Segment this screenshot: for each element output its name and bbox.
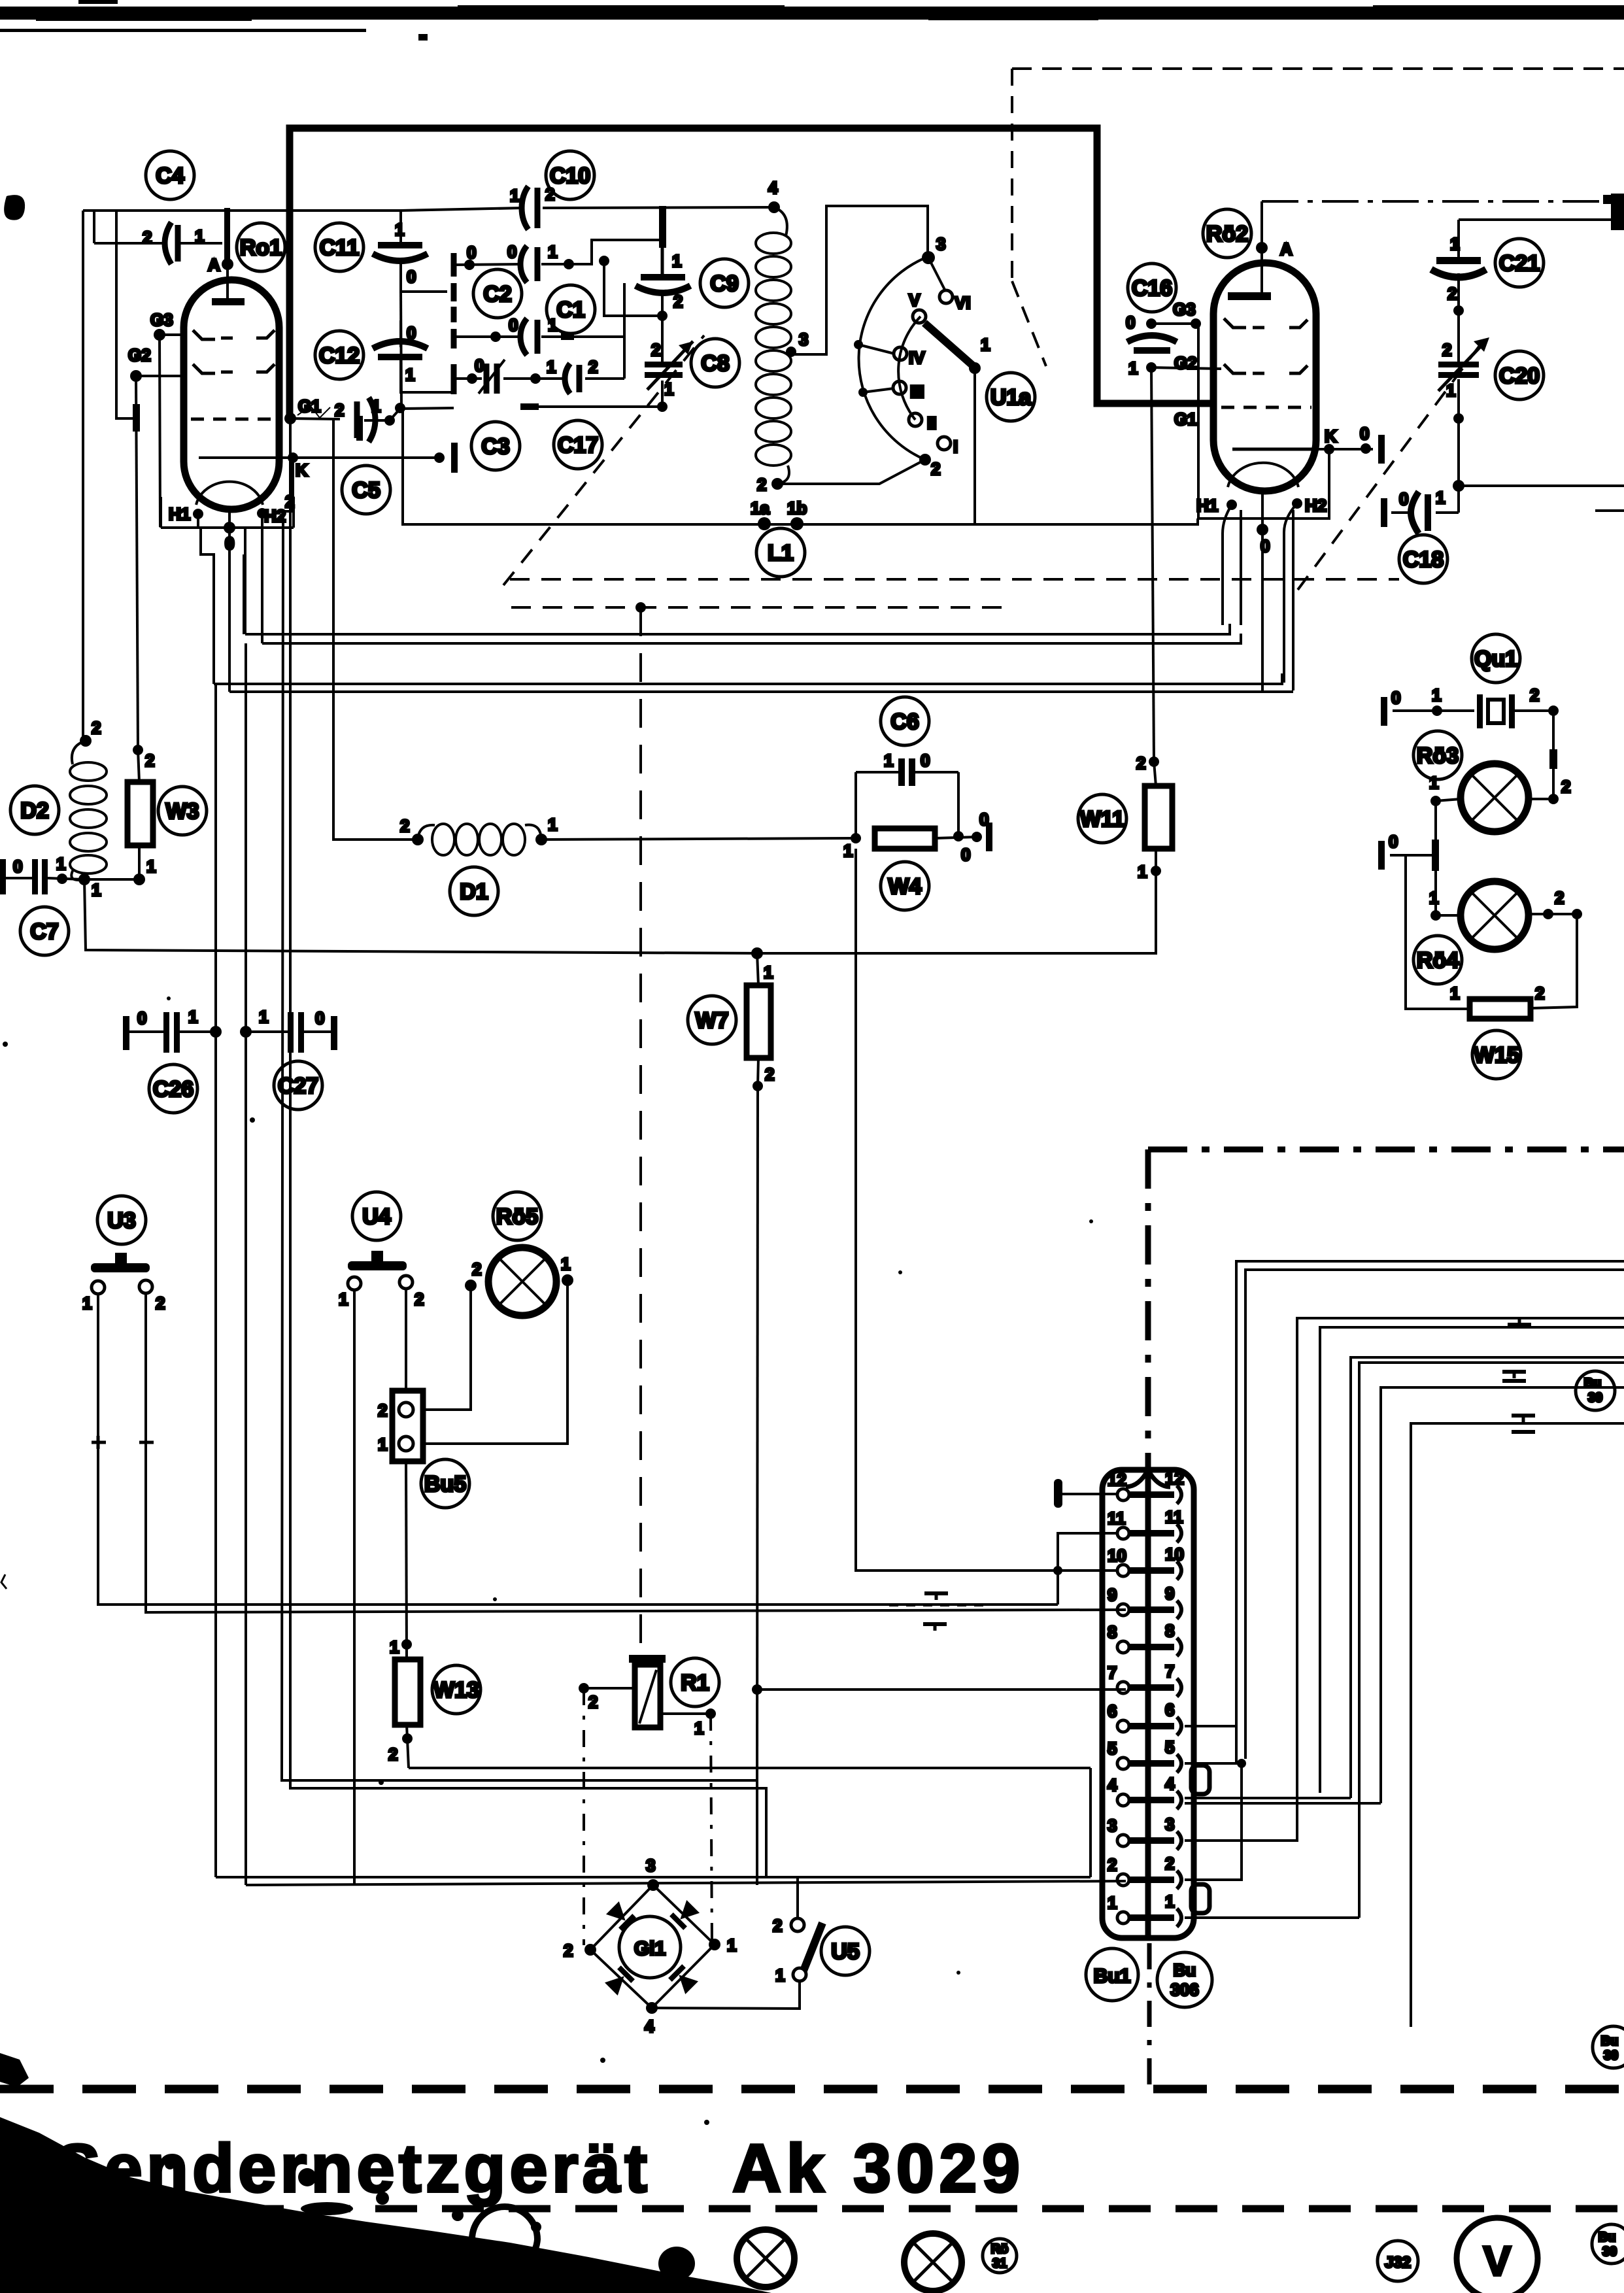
- capacitor C27: [240, 1012, 337, 1053]
- wire lamp feed node: [1378, 801, 1439, 915]
- svg-text:Gl1: Gl1: [634, 1938, 666, 1960]
- svg-text:C11: C11: [320, 235, 360, 260]
- lamp bottom 2: [737, 2230, 794, 2287]
- svg-text:1: 1: [82, 1293, 92, 1313]
- wire pin10 feed: [856, 849, 1117, 1571]
- capacitor C6: [856, 758, 958, 786]
- svg-text:1: 1: [727, 1935, 736, 1955]
- svg-text:C12: C12: [319, 343, 360, 368]
- tube Ro2 pin 0: [1257, 493, 1268, 690]
- svg-text:1: 1: [378, 1435, 387, 1454]
- svg-text:1: 1: [56, 854, 65, 874]
- wire G2 drop to W3: [116, 211, 184, 755]
- svg-text:II: II: [927, 413, 936, 433]
- dashed box bottom line: [510, 578, 1399, 581]
- svg-text:1: 1: [92, 880, 101, 900]
- wire trimmer row: [454, 373, 624, 384]
- tube Ro1 pin H1: [193, 509, 203, 528]
- label circle Rö3: [1413, 731, 1462, 779]
- label circle L1: [756, 528, 805, 577]
- label circle C11: [315, 223, 364, 271]
- svg-text:2: 2: [1535, 983, 1544, 1003]
- tube Ro1 grid G1: [191, 418, 275, 421]
- capacitor C18: [1411, 492, 1428, 534]
- switch U5: [791, 1918, 822, 1981]
- wire pin6 right stub: [1185, 1726, 1236, 1763]
- resistor W13: [395, 1659, 420, 1725]
- svg-text:J32: J32: [1385, 2254, 1411, 2271]
- svg-text:C21: C21: [1499, 251, 1540, 276]
- svg-text:0: 0: [509, 315, 518, 335]
- diode Gl1 top-left: [605, 1901, 636, 1931]
- lamp bottom partial 1: [472, 2207, 537, 2264]
- capacitor C10: [522, 186, 537, 229]
- capacitor trimmer row right: [565, 364, 579, 394]
- svg-text:K: K: [1325, 426, 1337, 446]
- svg-text:4: 4: [1108, 1775, 1117, 1795]
- wire left bus x127 to D2: [82, 211, 84, 741]
- switch U4: [348, 1251, 413, 1290]
- svg-text:1: 1: [259, 1007, 268, 1027]
- boundary thick dashed line y3195: [0, 2085, 1624, 2094]
- svg-text:1: 1: [1429, 888, 1438, 908]
- svg-text:7: 7: [1108, 1663, 1117, 1682]
- resistor R1 rheostat: [629, 1655, 666, 1727]
- label circle C1: [547, 285, 595, 333]
- svg-text:31: 31: [992, 2256, 1007, 2271]
- svg-text:1b: 1b: [787, 498, 807, 518]
- tube Ro2 bottom dome: [1228, 463, 1298, 487]
- node anode junction A: [222, 208, 233, 270]
- wire C1 row: [454, 283, 624, 342]
- label circle Rö2: [1203, 209, 1251, 258]
- wire D1 to W4: [541, 838, 856, 840]
- tube Ro2 pin H2: [1284, 498, 1302, 690]
- switch U1a contact III: [893, 381, 906, 394]
- wire C6 W4 loop: [851, 772, 964, 843]
- wire right edge row y743: [1459, 484, 1624, 487]
- wire R1 terminal 2: [579, 1683, 635, 1693]
- label circle W13: [432, 1665, 481, 1714]
- switch U3: [91, 1253, 152, 1294]
- switch U1a arc: [854, 251, 945, 466]
- tube Ro1 base outline: [161, 497, 294, 528]
- wire Ro5 terminals: [423, 1274, 573, 1444]
- svg-text:Ro1: Ro1: [240, 235, 282, 260]
- boundary thick dashed line y3378: [242, 2205, 1624, 2213]
- label circle C10: [546, 151, 594, 199]
- switch U1a rotor: [924, 323, 981, 524]
- label circle C6: [881, 697, 929, 745]
- svg-text:K: K: [296, 460, 308, 480]
- connector pin 10: [1108, 1544, 1184, 1580]
- tube Ro1 cathode: [197, 456, 200, 459]
- svg-text:2: 2: [145, 751, 154, 770]
- label circle C17: [554, 420, 602, 469]
- svg-text:1: 1: [764, 962, 773, 982]
- label circle C8: [691, 339, 739, 387]
- label circle W3: [158, 787, 207, 835]
- svg-text:W11: W11: [1080, 807, 1125, 832]
- wire comb vertical feed: [401, 292, 401, 408]
- node L1 terminal 3: [786, 206, 928, 357]
- wire G1 row to comb: [284, 403, 454, 426]
- tube Ro2 grid G2: [1224, 364, 1308, 373]
- svg-text:2: 2: [1530, 685, 1539, 705]
- label circle U5: [821, 1927, 870, 1975]
- svg-text:G1: G1: [1174, 409, 1197, 429]
- svg-text:1: 1: [395, 220, 404, 239]
- label circle D1: [450, 867, 498, 915]
- wire pin11 feed: [1058, 1533, 1117, 1605]
- label circle Bu1: [1086, 1948, 1138, 2001]
- rectifier Gl1 bridge: [584, 1879, 720, 2014]
- wire x1668 riser: [1089, 1768, 1092, 1877]
- svg-text:C9: C9: [710, 271, 738, 296]
- svg-text:11: 11: [1108, 1508, 1126, 1528]
- svg-text:8: 8: [1108, 1622, 1117, 1642]
- svg-text:2: 2: [1447, 284, 1457, 303]
- wire Ro2 base box: [1198, 324, 1329, 518]
- wire heater bus pair 2: [214, 673, 1293, 692]
- scan blob bottom left: [0, 2117, 771, 2293]
- wire anode top-left loop (C4 row): [83, 207, 774, 243]
- svg-text:Rö: Rö: [991, 2242, 1009, 2256]
- svg-text:VI: VI: [955, 293, 971, 313]
- svg-text:2: 2: [1108, 1855, 1117, 1875]
- resistor W15: [1470, 999, 1531, 1019]
- wire dash vertical to Gl1 1: [711, 1714, 712, 1945]
- wire vertical drops from Ro1 base to C26 C27: [216, 643, 246, 1885]
- svg-text:0: 0: [407, 267, 416, 286]
- boundary dash-dot vertical x1756: [1145, 1149, 1151, 1470]
- coil D1: [418, 824, 541, 855]
- wire long verticals x431 x444: [282, 422, 766, 1885]
- svg-text:5: 5: [1165, 1737, 1174, 1757]
- svg-text:10: 10: [1165, 1544, 1184, 1564]
- wire dash vertical to Gl1 2: [583, 1688, 585, 1945]
- svg-text:2: 2: [1136, 753, 1145, 773]
- diode Gl1 top-right: [669, 1899, 700, 1930]
- svg-text:Rö2: Rö2: [1206, 222, 1248, 246]
- svg-text:1: 1: [884, 751, 893, 770]
- ground symbol on shield pass-through: [889, 1593, 987, 1631]
- svg-text:10: 10: [1108, 1546, 1126, 1565]
- tube Ro1 base skirt: [201, 528, 245, 692]
- svg-text:2: 2: [400, 816, 409, 836]
- wire Ro2 G2 row: [1151, 367, 1221, 369]
- lamp bottom 3: [904, 2234, 962, 2291]
- svg-text:1: 1: [548, 815, 557, 834]
- label circle W7: [688, 996, 736, 1044]
- svg-text:Qu1: Qu1: [1474, 647, 1517, 671]
- svg-text:1a: 1a: [751, 498, 770, 518]
- wire right edge stub y781: [1595, 509, 1624, 512]
- svg-text:G2: G2: [1174, 353, 1197, 373]
- switch U1a contact IV: [894, 347, 907, 360]
- svg-text:C10: C10: [550, 163, 590, 188]
- wire double lines to Gl1: [216, 1877, 1126, 1885]
- dashed boundary U1a left: [1012, 69, 1046, 366]
- wire C18 row: [1381, 498, 1459, 527]
- wire pin4 right: [1185, 1798, 1381, 1803]
- svg-text:12: 12: [1165, 1469, 1184, 1488]
- svg-text:G1: G1: [298, 396, 321, 416]
- label circle C9: [700, 259, 749, 307]
- svg-text:C4: C4: [156, 163, 184, 188]
- label circle Bu right edge y2128: [1576, 1371, 1615, 1410]
- capacitor C26: [123, 1012, 222, 1053]
- svg-text:2: 2: [388, 1744, 398, 1764]
- node L1 terminal 2: [771, 460, 925, 490]
- capacitor C9: [635, 274, 690, 293]
- svg-text:7: 7: [1165, 1661, 1174, 1681]
- svg-text:0: 0: [961, 845, 970, 864]
- svg-text:2: 2: [156, 1293, 165, 1313]
- label circle C5: [342, 466, 390, 514]
- svg-text:H1: H1: [169, 504, 190, 524]
- wire right jog to C17 box: [623, 318, 626, 379]
- capacitor C1: [520, 318, 537, 355]
- svg-text:Bu1: Bu1: [1094, 1965, 1131, 1987]
- tube Ro2 grid G1: [1221, 406, 1311, 409]
- tube Ro2 grid G3: [1224, 318, 1308, 328]
- label circle C21: [1495, 239, 1544, 287]
- meter V: [1457, 2218, 1538, 2293]
- tube Ro2 pin H1: [1223, 500, 1241, 625]
- node L1 terminal 4: [768, 201, 780, 213]
- svg-text:L1: L1: [768, 541, 794, 566]
- svg-text:G3: G3: [1173, 299, 1196, 319]
- svg-text:1: 1: [1108, 1893, 1117, 1912]
- label circle U1a: [987, 373, 1035, 421]
- node comb plates: [451, 253, 457, 394]
- label circle C27: [274, 1061, 322, 1110]
- svg-text:1: 1: [1450, 234, 1459, 254]
- connector pin 9: [1108, 1584, 1181, 1619]
- ground symbols on nested lines: [1492, 1318, 1555, 1432]
- svg-text:3: 3: [799, 330, 808, 349]
- scan artifact tick left edge: [1, 1574, 7, 1589]
- wire W3 leads: [84, 750, 145, 885]
- resistor W7: [747, 985, 771, 1058]
- capacitor C20 variable: [1438, 337, 1489, 391]
- connector pin 1: [1108, 1892, 1181, 1927]
- svg-text:11: 11: [1165, 1507, 1183, 1527]
- resistor W4: [875, 828, 935, 849]
- capacitor ground plate left of x616: [356, 416, 363, 441]
- label circle Bu5: [421, 1459, 469, 1508]
- svg-text:3: 3: [1165, 1814, 1174, 1834]
- wire D2 bottom to bus: [84, 879, 757, 953]
- tube Ro1 grid G2: [193, 364, 275, 373]
- svg-text:2: 2: [1442, 340, 1451, 360]
- wire pin5 right: [1185, 1759, 1246, 1880]
- svg-text:C20: C20: [1499, 364, 1540, 388]
- svg-text:H2: H2: [1305, 496, 1327, 515]
- connector pin 4: [1108, 1774, 1181, 1809]
- label circle Rö5: [493, 1192, 541, 1240]
- connector Bu1 Bu306 body: [1102, 1470, 1210, 1938]
- label circle Qu1: [1472, 634, 1520, 683]
- svg-text:0: 0: [921, 751, 930, 770]
- svg-text:Bu: Bu: [1599, 2230, 1616, 2245]
- svg-text:2: 2: [651, 340, 660, 360]
- tube Ro2 cathode: [1232, 448, 1316, 451]
- wire Ro2 G3 row: [1146, 318, 1201, 329]
- resistor W3: [127, 782, 153, 845]
- svg-text:C3: C3: [481, 434, 509, 459]
- svg-text:I: I: [953, 437, 958, 456]
- svg-text:1: 1: [188, 1007, 197, 1027]
- lamp Ro4: [1461, 881, 1529, 949]
- svg-text:D2: D2: [20, 798, 48, 823]
- svg-text:0: 0: [467, 243, 476, 262]
- svg-text:W7: W7: [696, 1008, 729, 1033]
- label circle C12: [315, 331, 364, 379]
- wire W11 leads: [757, 756, 1161, 953]
- svg-text:3: 3: [936, 234, 945, 254]
- label circle C2: [473, 269, 522, 318]
- svg-text:4: 4: [768, 178, 778, 197]
- svg-text:1: 1: [371, 396, 381, 416]
- label circle W11: [1078, 794, 1126, 843]
- svg-text:0: 0: [1389, 832, 1398, 851]
- svg-text:1: 1: [694, 1718, 703, 1738]
- lamp Ro5: [488, 1248, 556, 1316]
- wire Ro2 anode to top line: [1260, 201, 1263, 248]
- wire Gl1 4 to U5: [652, 1982, 800, 2009]
- svg-text:2: 2: [335, 400, 344, 420]
- wire W13 bottom: [402, 1725, 413, 1768]
- svg-text:2: 2: [757, 475, 766, 494]
- svg-text:W3: W3: [166, 799, 199, 824]
- svg-text:U1a: U1a: [990, 385, 1032, 410]
- wire G3 drop Ro1: [154, 329, 184, 527]
- svg-text:1: 1: [843, 841, 853, 860]
- svg-text:III: III: [910, 382, 924, 401]
- svg-text:30: 30: [1588, 1391, 1602, 1405]
- svg-text:2: 2: [1561, 777, 1570, 796]
- svg-text:1: 1: [195, 226, 204, 246]
- svg-text:C16: C16: [1132, 276, 1172, 301]
- svg-text:2: 2: [765, 1064, 774, 1084]
- svg-text:A: A: [1280, 239, 1293, 259]
- svg-text:W15: W15: [1474, 1043, 1519, 1068]
- svg-text:C5: C5: [352, 478, 380, 503]
- svg-text:30: 30: [1602, 2245, 1617, 2259]
- label circle U4: [352, 1192, 401, 1240]
- svg-text:1: 1: [672, 251, 681, 271]
- capacitor right edge top: [1603, 194, 1624, 230]
- switch U1a contact II: [909, 413, 922, 426]
- label circle C20: [1495, 351, 1544, 399]
- crystal Qu1: [1381, 694, 1559, 753]
- label circle R1: [671, 1658, 719, 1707]
- svg-text:2: 2: [285, 492, 294, 511]
- capacitor C7: [0, 859, 84, 894]
- svg-text:1: 1: [981, 335, 990, 354]
- switch U1a contact V: [913, 310, 926, 323]
- switch U1a contact VI: [939, 290, 953, 303]
- svg-text:C18: C18: [1403, 547, 1444, 572]
- svg-text:0: 0: [979, 809, 989, 829]
- wire long horizontal y2704: [409, 1767, 1091, 1769]
- svg-text:0: 0: [225, 534, 234, 553]
- node D1 terminals: [412, 834, 547, 845]
- dashed boundary top right: [1012, 67, 1624, 70]
- diode Gl1 bottom-left: [604, 1965, 635, 1996]
- dashed vertical to R1: [635, 602, 646, 1655]
- connector pin 11: [1108, 1507, 1183, 1542]
- label circle W15: [1472, 1030, 1521, 1079]
- wire L1 secondary 1a 1b: [758, 517, 804, 530]
- connector pin 8: [1108, 1621, 1181, 1656]
- wire Bu5 to W13: [401, 1461, 412, 1659]
- label circle C3: [471, 422, 520, 470]
- svg-text:2: 2: [143, 228, 152, 247]
- wire U4 contact 1 drop: [353, 1290, 356, 1884]
- svg-text:0: 0: [507, 242, 516, 262]
- svg-text:0: 0: [13, 857, 22, 876]
- svg-text:1: 1: [1446, 381, 1455, 400]
- dashed diagonal C17 to C8: [503, 335, 704, 585]
- svg-text:G3: G3: [150, 310, 173, 330]
- wire U4 contact 2 drop: [405, 1289, 407, 1391]
- wire top dash line to right edge: [1262, 200, 1624, 203]
- wire W4 right ground: [935, 823, 992, 851]
- capacitor C2: [520, 246, 537, 282]
- label circle U3: [97, 1196, 146, 1244]
- wire C21 drop: [1453, 220, 1624, 513]
- svg-text:2: 2: [1555, 888, 1564, 908]
- svg-text:R1: R1: [681, 1671, 709, 1695]
- label circle Ro31: [983, 2239, 1017, 2273]
- svg-text:W13: W13: [433, 1678, 479, 1703]
- tube Ro1 bottom dome: [196, 482, 263, 505]
- svg-text:1: 1: [1436, 488, 1445, 507]
- svg-text:C1: C1: [556, 297, 584, 322]
- svg-text:30: 30: [1604, 2048, 1618, 2063]
- wire D1 left riser: [333, 419, 418, 840]
- capacitor C21: [1431, 257, 1486, 277]
- label circle C18: [1399, 535, 1447, 583]
- svg-text:306: 306: [1170, 1980, 1198, 1999]
- svg-text:2: 2: [414, 1289, 424, 1309]
- svg-text:G2: G2: [128, 345, 151, 365]
- scan artifact left edge blob: [4, 195, 25, 220]
- label circle W4: [881, 862, 929, 910]
- connector pin 3: [1108, 1814, 1181, 1850]
- wire C16 drop to W11: [1151, 367, 1154, 762]
- svg-text:9: 9: [1165, 1584, 1174, 1603]
- svg-text:C17: C17: [558, 433, 598, 458]
- label circle Rö4: [1413, 936, 1462, 984]
- svg-text:4: 4: [645, 2016, 654, 2036]
- dashed line lower: [511, 606, 1010, 609]
- capacitor C11: [373, 211, 447, 292]
- wire R1 terminal 1: [660, 1708, 716, 1719]
- svg-text:0: 0: [1360, 424, 1369, 443]
- svg-text:2: 2: [588, 1692, 598, 1712]
- wire Ro4 terminals: [1430, 909, 1582, 1008]
- boundary dash-dot below connector: [1147, 1943, 1152, 2088]
- connector pin 6: [1108, 1700, 1181, 1735]
- svg-text:6: 6: [1165, 1700, 1174, 1720]
- svg-text:2: 2: [673, 292, 683, 311]
- svg-text:2: 2: [588, 357, 598, 377]
- svg-text:0: 0: [407, 323, 416, 343]
